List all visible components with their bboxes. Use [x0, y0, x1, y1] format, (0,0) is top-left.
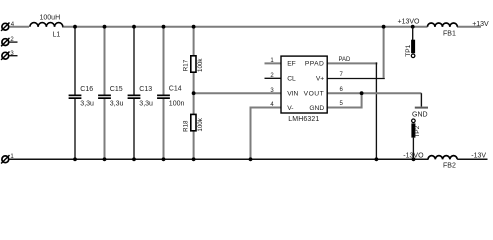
connector pin 4 — [1, 23, 9, 31]
wire pin4 to L1 — [10, 26, 30, 28]
svg-text:VOUT: VOUT — [304, 90, 325, 97]
node dot -13VO TP2 — [412, 157, 416, 161]
wire top rail +13VO — [62, 26, 428, 28]
wire PPAD horizontal — [327, 62, 377, 64]
svg-text:PPAD: PPAD — [305, 61, 324, 68]
wire C15 column lower — [104, 99, 106, 159]
wire C13 column upper — [133, 27, 135, 95]
wire top rail after FB1 to +13V — [457, 26, 481, 28]
wire bottom rail -13VO — [10, 158, 429, 160]
wire pin 1 EF stub — [265, 62, 282, 64]
svg-text:3,3u: 3,3u — [139, 101, 153, 108]
node dot bottom rail C15 — [103, 157, 107, 161]
svg-text:100uH: 100uH — [40, 14, 61, 21]
capacitor C15 — [98, 95, 111, 100]
wire C14 column upper — [163, 27, 165, 95]
wire VIN net to pin 3 — [194, 92, 281, 94]
svg-text:3,3u: 3,3u — [110, 101, 124, 108]
svg-text:3,3u: 3,3u — [80, 101, 94, 108]
node dot top rail C15 — [103, 25, 107, 29]
svg-text:+13V: +13V — [472, 21, 489, 28]
svg-text:EF: EF — [287, 61, 296, 68]
svg-text:100n: 100n — [169, 100, 185, 107]
svg-text:CL: CL — [287, 76, 296, 83]
svg-text:C14: C14 — [169, 86, 182, 93]
capacitor C13 — [128, 95, 141, 100]
wire R18 bottom to rail — [193, 130, 195, 159]
node dot bottom rail C14 — [162, 157, 166, 161]
svg-text:V-: V- — [287, 105, 293, 112]
wire C16 column lower — [74, 99, 76, 159]
svg-text:GND: GND — [309, 105, 324, 112]
svg-text:-13VO: -13VO — [403, 153, 424, 160]
wire GND pin 5 horizontal — [327, 107, 362, 109]
ground symbol GND — [415, 93, 428, 107]
node dot top rail C16 — [73, 25, 77, 29]
node dot bottom rail C16 — [73, 157, 77, 161]
node dot +13VO TP1 — [411, 25, 415, 29]
svg-text:C15: C15 — [110, 86, 123, 93]
op-amp buffer U1 LMH6321 — [281, 56, 327, 113]
wire pin 4 V- horizontal — [251, 107, 282, 109]
ferrite bead FB1 — [428, 23, 458, 27]
connector pin 2 — [1, 38, 17, 46]
svg-text:TP1: TP1 — [405, 44, 412, 56]
capacitor C16 — [69, 95, 82, 100]
wire C14 column lower — [163, 99, 165, 159]
node dot top rail V+ — [382, 25, 386, 29]
connector pin 3 — [1, 52, 17, 60]
inductor L1 — [30, 23, 63, 27]
wire V+ vertical to top rail — [383, 27, 385, 78]
node dot bottom rail C13 — [132, 157, 136, 161]
svg-text:R17: R17 — [182, 59, 189, 71]
node dot VOUT-GND junction — [360, 91, 364, 95]
svg-text:VIN: VIN — [287, 90, 298, 97]
node dot bottom rail V- — [249, 157, 253, 161]
svg-text:FB1: FB1 — [443, 30, 456, 37]
svg-text:R18: R18 — [182, 120, 189, 132]
resistor R18 — [191, 114, 196, 130]
wire node VIN to R18 top — [193, 93, 195, 115]
wire PPAD vertical to bottom rail — [375, 62, 377, 159]
capacitor C14 — [157, 95, 170, 100]
svg-text:-13V: -13V — [471, 152, 486, 159]
wire V+ pin 7 horizontal — [327, 78, 385, 80]
connector pin 1 — [1, 155, 9, 163]
node dot top rail C13 — [132, 25, 136, 29]
resistor R17 — [191, 56, 196, 72]
wire C15 column upper — [104, 27, 106, 95]
svg-text:C13: C13 — [139, 86, 152, 93]
node dot bottom rail R18 — [192, 157, 196, 161]
wire C16 column upper — [74, 27, 76, 95]
svg-text:TP2: TP2 — [414, 125, 421, 137]
wire pin 2 CL stub — [265, 77, 282, 79]
svg-text:LMH6321: LMH6321 — [288, 116, 319, 123]
node dot top rail C14 — [162, 25, 166, 29]
test point TP2 — [411, 119, 415, 159]
wire R17 top to rail — [193, 27, 195, 57]
wire pin 4 V- vertical to bottom rail — [250, 107, 252, 160]
wire GND pin 5 vertical to VOUT node — [361, 93, 363, 108]
svg-text:100k: 100k — [197, 117, 204, 131]
wire bottom rail after FB2 to -13V — [457, 158, 487, 160]
node dot top rail R17 — [192, 25, 196, 29]
svg-text:PAD: PAD — [339, 57, 352, 63]
svg-text:C16: C16 — [80, 86, 93, 93]
wire R17 bottom to node VIN — [193, 71, 195, 93]
ferrite bead FB2 — [428, 156, 457, 160]
wire C13 column lower — [133, 99, 135, 159]
test point TP1 — [411, 27, 415, 58]
svg-text:L1: L1 — [53, 31, 61, 38]
svg-text:100k: 100k — [197, 58, 204, 72]
wire VOUT pin 6 to GND symbol — [327, 92, 421, 94]
svg-text:FB2: FB2 — [443, 163, 456, 170]
svg-text:+13VO: +13VO — [398, 18, 421, 25]
node dot VIN junction — [192, 91, 196, 95]
svg-text:GND: GND — [412, 112, 428, 119]
node dot bottom rail PPAD — [375, 157, 379, 161]
svg-text:V+: V+ — [316, 76, 324, 83]
